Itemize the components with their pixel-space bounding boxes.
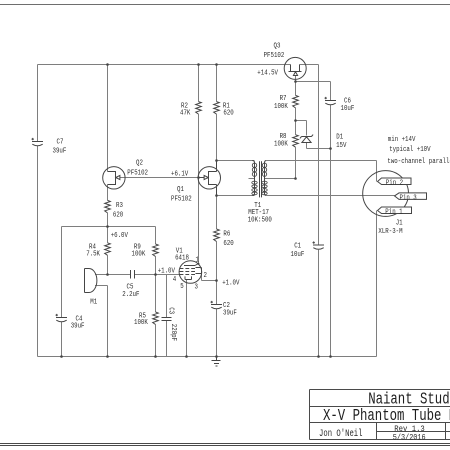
svg-text:Q3: Q3	[274, 43, 281, 51]
svg-text:39uF: 39uF	[53, 147, 67, 155]
svg-text:3: 3	[195, 283, 198, 291]
svg-text:620: 620	[223, 240, 233, 248]
svg-text:R3: R3	[116, 202, 123, 210]
svg-text:+6.1V: +6.1V	[171, 170, 189, 178]
svg-text:M1: M1	[90, 298, 97, 306]
svg-text:Q2: Q2	[136, 159, 143, 167]
svg-text:100K: 100K	[134, 319, 148, 327]
svg-text:100K: 100K	[132, 250, 146, 258]
svg-text:100K: 100K	[274, 103, 288, 111]
svg-text:XLR-3-M: XLR-3-M	[378, 228, 402, 236]
svg-text:620: 620	[223, 110, 233, 118]
svg-text:4: 4	[173, 276, 176, 284]
svg-text:Pin 3: Pin 3	[400, 194, 417, 202]
svg-text:Q1: Q1	[177, 186, 184, 194]
svg-text:C1: C1	[294, 243, 301, 251]
svg-text:10uF: 10uF	[341, 105, 355, 113]
svg-text:+1.0V: +1.0V	[158, 268, 176, 276]
svg-text:100K: 100K	[274, 140, 288, 148]
svg-text:min +14V: min +14V	[388, 136, 416, 144]
svg-text:7.5K: 7.5K	[86, 250, 100, 258]
svg-text:X-V Phantom Tube Preamp: X-V Phantom Tube Preamp	[323, 407, 450, 426]
svg-text:220pF: 220pF	[169, 324, 177, 341]
svg-text:10K:500: 10K:500	[248, 217, 272, 225]
svg-text:2.2uF: 2.2uF	[122, 291, 139, 299]
svg-text:two-channel parallel: two-channel parallel	[387, 158, 450, 166]
svg-text:D1: D1	[336, 134, 343, 142]
svg-text:10uF: 10uF	[291, 251, 305, 259]
svg-text:Pin 1: Pin 1	[385, 209, 402, 217]
svg-text:47K: 47K	[180, 110, 191, 118]
svg-text:39uF: 39uF	[71, 322, 85, 330]
svg-text:Pin 2: Pin 2	[386, 180, 403, 188]
svg-text:2: 2	[204, 272, 207, 280]
svg-text:typical +10V: typical +10V	[389, 146, 431, 154]
svg-text:Jon O'Neil: Jon O'Neil	[319, 428, 363, 439]
svg-text:R7: R7	[280, 95, 287, 103]
svg-text:5/3/2016: 5/3/2016	[393, 433, 426, 443]
svg-text:+1.0V: +1.0V	[222, 280, 240, 288]
svg-text:620: 620	[113, 212, 123, 220]
svg-text:15V: 15V	[336, 142, 347, 150]
svg-text:PF5102: PF5102	[171, 196, 192, 204]
svg-text:6418: 6418	[175, 254, 189, 262]
svg-text:C7: C7	[57, 139, 64, 147]
svg-text:39uF: 39uF	[223, 310, 237, 318]
svg-text:PF5102: PF5102	[264, 52, 285, 60]
svg-text:J1: J1	[396, 220, 403, 228]
svg-text:PF5102: PF5102	[127, 169, 148, 177]
svg-text:+6.0V: +6.0V	[111, 232, 129, 240]
svg-text:+14.5V: +14.5V	[257, 69, 278, 77]
svg-text:R6: R6	[223, 230, 230, 238]
svg-text:C3: C3	[166, 307, 174, 314]
svg-text:5: 5	[180, 283, 183, 291]
svg-text:1: 1	[196, 257, 199, 265]
